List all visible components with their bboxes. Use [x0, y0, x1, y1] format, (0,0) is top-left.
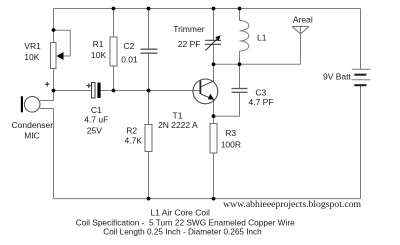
- condenser mic element bar: [21, 96, 23, 112]
- junction emitter / C3 bottom / R3 top: [212, 114, 216, 118]
- svg-text:VR1: VR1: [24, 41, 41, 51]
- svg-text:Areal: Areal: [293, 15, 313, 25]
- wire left drop from top rail into VR1: [53, 9, 55, 43]
- junction R1 top rail: [112, 7, 116, 11]
- svg-text:R1: R1: [93, 39, 104, 49]
- svg-text:10K: 10K: [91, 50, 106, 60]
- wire emitter lead: [213, 100, 215, 117]
- capacitor C1 left plate: [92, 83, 96, 98]
- capacitor C2 plates: [141, 49, 158, 53]
- junction trimmer top rail: [212, 7, 216, 11]
- wire C2 top lead: [148, 9, 150, 49]
- svg-text:100R: 100R: [221, 139, 241, 149]
- junction L1 bottom / C3 top: [238, 62, 242, 66]
- svg-text:Coil Specification - 5 Turn 2: Coil Specification - 5 Turn 22 SWG Ename…: [76, 218, 295, 228]
- svg-text:4.7 PF: 4.7 PF: [249, 97, 274, 107]
- potentiometer VR1 wiper arrowhead: [57, 52, 64, 60]
- transistor T1 emitter arrowhead: [208, 94, 214, 100]
- wire mic bottom stub and ground drop: [40, 109, 54, 199]
- wire top rail: [54, 8, 361, 10]
- wire mic top stub: [40, 100, 54, 102]
- wire VR1 bottom lead to + node: [53, 69, 55, 101]
- trimmer capacitor plates: [205, 40, 221, 44]
- wire L1 top lead: [239, 9, 241, 21]
- junction R1 bottom / base node: [112, 89, 116, 93]
- trimmer arrow: [206, 38, 219, 51]
- junction R3 bottom rail: [212, 197, 216, 201]
- junction R2 bottom rail: [147, 197, 151, 201]
- svg-text:4.7K: 4.7K: [125, 136, 143, 146]
- wire tank bottom node to antenna: [214, 63, 301, 65]
- svg-text:Coil Length 0.25 Inch - Diamet: Coil Length 0.25 Inch - Diameter 0.265 I…: [103, 228, 262, 237]
- junction VR1 wiper tap: [52, 28, 56, 32]
- wire R3 bottom lead: [213, 153, 215, 199]
- resistor R1 body: [110, 37, 117, 66]
- svg-text:R3: R3: [225, 128, 236, 138]
- wire VR1 wiper loop: [54, 30, 71, 56]
- svg-text:www.abhieeeprojects.blogspot.c: www.abhieeeprojects.blogspot.com: [223, 199, 361, 210]
- transistor T1 circle: [193, 79, 218, 104]
- wire right rail bottom (battery -): [360, 86, 362, 199]
- wire R2 top lead: [148, 91, 150, 125]
- svg-text:L1 Air Core Coil: L1 Air Core Coil: [150, 207, 210, 217]
- junction C2 bottom / R2 top: [147, 89, 151, 93]
- svg-text:C1: C1: [91, 105, 102, 115]
- svg-text:0.01: 0.01: [121, 55, 138, 65]
- inductor L1 coil: [240, 21, 249, 65]
- wire trimmer bottom lead: [213, 45, 215, 65]
- svg-text:R2: R2: [126, 126, 137, 136]
- capacitor C1 right plate (polarised): [97, 83, 100, 98]
- resistor R3 body: [210, 124, 217, 154]
- junction mic + node: [52, 89, 56, 93]
- wire antenna lead: [300, 27, 302, 65]
- wire bottom rail: [54, 198, 361, 200]
- svg-text:9V Batt: 9V Batt: [323, 72, 352, 82]
- wire C3 top lead: [239, 64, 241, 88]
- plus sign at mic node: [45, 82, 50, 87]
- plus sign at C1: [87, 83, 92, 88]
- antenna Areal symbol: [292, 27, 309, 35]
- wire trimmer top lead: [213, 9, 215, 41]
- svg-text:10K: 10K: [24, 52, 39, 62]
- wire collector lead: [213, 64, 215, 81]
- transistor T1 collector diagonal: [201, 81, 214, 87]
- capacitor C3 plates: [232, 89, 248, 93]
- condenser mic circle: [24, 97, 40, 113]
- svg-text:Trimmer: Trimmer: [173, 24, 204, 34]
- svg-text:4.7 uF: 4.7 uF: [84, 115, 108, 125]
- svg-text:L1: L1: [257, 33, 267, 43]
- svg-text:MIC: MIC: [24, 131, 40, 141]
- battery B1 long positive plates: [352, 69, 371, 80]
- wire C2 bottom lead: [148, 54, 150, 91]
- resistor R2 body: [145, 125, 152, 152]
- wire C3 bottom lead to emitter node: [214, 92, 240, 116]
- svg-text:22 PF: 22 PF: [178, 39, 201, 49]
- junction trimmer bottom / collector: [212, 62, 216, 66]
- svg-text:Condenser: Condenser: [12, 120, 54, 130]
- wire R2 bottom lead: [148, 152, 150, 199]
- junction L1 top rail: [238, 7, 242, 11]
- potentiometer VR1 body: [51, 43, 57, 69]
- junction C2 top rail: [147, 7, 151, 11]
- wire R1 bottom lead: [113, 66, 115, 91]
- wire R1 top lead: [113, 9, 115, 38]
- svg-text:2N 2222 A: 2N 2222 A: [158, 120, 198, 130]
- transistor T1 base bar: [199, 81, 201, 95]
- transistor T1 emitter diagonal: [201, 94, 212, 99]
- wire C1 right to base: [101, 90, 201, 92]
- wire R3 top lead: [213, 116, 215, 123]
- svg-text:25V: 25V: [87, 125, 102, 135]
- wire node to C1 left: [54, 90, 92, 92]
- battery B1 short negative plates: [354, 75, 366, 86]
- wire right rail top (battery +): [360, 9, 362, 70]
- svg-text:C2: C2: [124, 41, 135, 51]
